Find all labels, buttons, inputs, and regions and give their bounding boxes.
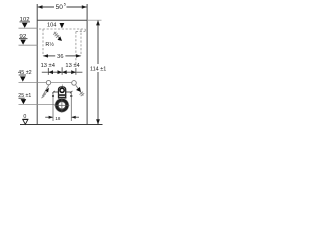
svg-text:R½: R½	[45, 41, 54, 48]
svg-text:18: 18	[55, 116, 60, 122]
svg-text:114 ±1: 114 ±1	[90, 67, 106, 73]
svg-text:13 ±4: 13 ±4	[65, 63, 80, 69]
svg-text:36: 36	[57, 54, 63, 60]
svg-text:5: 5	[64, 2, 66, 6]
svg-text:13 ±4: 13 ±4	[41, 63, 56, 69]
svg-text:104: 104	[47, 22, 56, 28]
svg-text:50: 50	[56, 5, 64, 11]
